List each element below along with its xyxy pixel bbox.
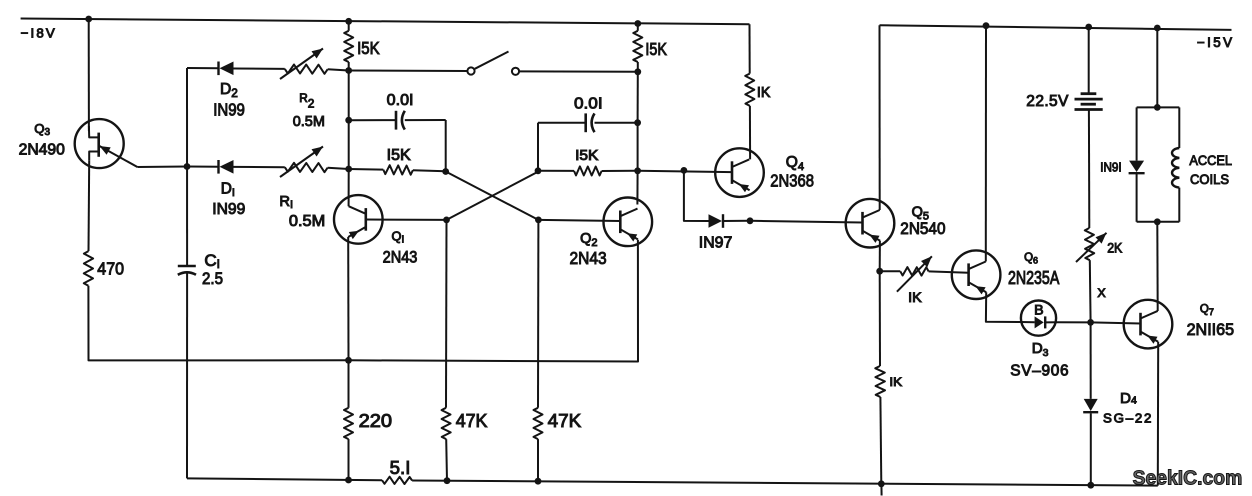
label 0.5M for R1 [289,213,325,230]
label D2 [220,81,238,100]
svg-text:DI: DI [221,181,235,199]
label 0.01 B [574,95,603,112]
label 2K [1107,241,1122,256]
battery 22.5V [1075,94,1103,110]
node junction emitter return / 220 top [345,357,352,364]
svg-text:2K: 2K [1107,241,1122,256]
label 15K C [575,148,599,164]
label Q2 [580,231,597,249]
node junction bottom rail / 47K A [444,477,451,484]
node junction cap line / Q1 column [345,117,352,124]
wire R1 node into Q1 collector [348,169,350,206]
transistor Q2 2N43 [604,198,653,247]
wire -15V top rail [880,25,1232,30]
wire D4 to bottom rail [1090,413,1092,485]
resistor 1K B variable (to Q6 base) [897,256,932,291]
label 47K B [548,410,582,431]
wire cap node to R1 node [348,120,350,169]
wire Q7 emitter to bottom rail [1157,342,1159,486]
svg-text:B: B [1034,302,1044,318]
label 220 [359,410,392,431]
label Q4 [786,154,804,173]
node junction switch line / Q2 column [634,68,641,75]
wire -15V rail to Q6 collector [985,26,987,262]
wire D2 to R2 [234,68,285,70]
label 2N43 for Q2 [570,248,607,268]
wire box to Q7 collector [1156,222,1158,311]
label SV-906 [1010,363,1068,380]
resistor 47K A [442,408,451,439]
resistor 15K D (Q2 collector load) [633,31,642,62]
svg-text:D4: D4 [1120,390,1137,407]
resistor 5.1 (in bottom rail) [382,477,412,484]
svg-text:IN9I: IN9I [1100,159,1122,174]
resistor 2K variable [1076,228,1107,262]
svg-text:SG–22: SG–22 [1103,411,1151,426]
wire D2 line left [187,67,220,69]
svg-text:2N368: 2N368 [770,171,814,191]
label 2N235A [1008,268,1059,288]
label SeekIC.com watermark [1133,467,1243,489]
resistor 220 [344,408,353,439]
svg-text:−I8V: −I8V [21,25,55,40]
svg-text:I5K: I5K [357,38,380,58]
node junction cap B / Q2 column [634,119,641,126]
svg-text:ACCEL: ACCEL [1189,152,1232,168]
svg-text:2N235A: 2N235A [1008,268,1059,288]
wire -15V rail to Q5 collector [879,25,881,210]
wire box left upper [1136,107,1138,160]
label Q1 [392,229,405,246]
label 0.5M for R2 [293,114,325,130]
wire stub below rail at 1K C column [880,484,882,496]
wire 15K D to switch node [637,62,639,72]
label Q7 [1200,304,1214,318]
wire box right upper [1178,107,1180,148]
wire Q6 emitter to D3 [986,292,1021,322]
svg-text:X: X [1097,286,1105,300]
wire coil box bottom [1137,221,1180,223]
wire switch node to cap node [348,71,350,121]
diode D1 1N99 [219,160,234,174]
wire D1 line left [187,166,220,168]
wire Q3 emitter to D1 node [137,166,187,169]
label D1 [221,181,235,199]
svg-text:220: 220 [359,410,392,431]
label 1K C [889,375,902,389]
wire switch line right [519,70,638,72]
capacitor C1 [178,266,196,275]
label 1N99 for D2 [213,99,245,119]
svg-text:QI: QI [392,229,405,246]
svg-text:0.0I: 0.0I [387,92,414,109]
node junction -15V rail / coil box column [1154,25,1161,32]
label 1K B [908,289,922,305]
wire cap B left lead down [537,123,539,171]
svg-text:Q7: Q7 [1200,304,1214,318]
svg-text:SV–906: SV–906 [1010,363,1068,380]
resistor R2 0.5M variable [280,49,328,80]
wire X node to Q7 base [1091,322,1141,323]
resistor 1K A (Q4 collector load) [745,74,754,106]
label R2 [299,91,315,111]
label 47K A [456,410,488,431]
node junction -15V rail / battery column [1085,24,1092,31]
switch S1 lever [475,52,509,69]
label ACCEL [1189,152,1232,168]
transistor Q4 2N368 [715,148,764,197]
node junction top rail / Q3 column [85,16,92,23]
label 2N43 for Q1 [383,248,418,267]
svg-text:47K: 47K [456,410,488,431]
node X junction [1087,319,1094,326]
wire switch node to cap B node [637,72,639,123]
label Q5 [912,205,929,223]
node junction bottom rail / 47K B [535,478,542,485]
node Q1 base junction [443,217,450,224]
svg-text:2NII65: 2NII65 [1187,320,1235,339]
svg-text:0.0I: 0.0I [574,95,603,112]
wire -18V top rail [21,19,750,25]
label 0.01 A [387,92,414,109]
svg-text:IK: IK [908,289,922,305]
diode 1N91 [1129,161,1145,174]
capacitor 0.01 B [538,113,638,132]
svg-text:0.5M: 0.5M [289,213,325,230]
svg-text:2.5: 2.5 [202,269,223,288]
svg-text:R2: R2 [299,91,315,111]
diode D3 SV-906 (circled, B) [1021,301,1056,336]
svg-text:D3: D3 [1032,340,1049,359]
label Q6 [1024,252,1038,266]
wire 220 top lead [348,360,350,408]
svg-text:2N490: 2N490 [19,141,65,158]
node Q5 emitter junction [876,268,883,275]
wire Q5 emitter to 1K B [880,270,901,272]
wire 1N97 drop [684,170,709,221]
wire D3 to X node [1056,321,1091,323]
wire coil box top [1137,106,1180,108]
label X node [1097,286,1105,300]
node junction bottom rail / D4 [1087,482,1094,489]
svg-text:5.I: 5.I [390,457,411,478]
svg-text:22.5V: 22.5V [1026,93,1069,110]
label 5.1 [390,457,411,478]
wire 1K A to Q4 collector [749,106,751,159]
node junction cap B / 15K C / cross-couple [535,167,542,174]
transistor Q5 2N540 [846,199,895,248]
wire Q5 emitter down to 1K node [879,241,881,271]
wire bottom rail right of 5.1 [412,481,1158,486]
wire 2K to X node [1089,260,1092,322]
label 1N97 [699,234,733,251]
svg-text:IK: IK [889,375,902,389]
label 15K B [387,147,412,164]
label C1 [204,251,220,271]
label 15K D [645,39,667,59]
svg-text:2N43: 2N43 [570,248,607,268]
label 2N540 [900,219,945,238]
wire X node to D4 [1090,322,1092,399]
wire 15K A to switch node [348,62,350,71]
wire rail to 15K A [348,21,350,31]
wire C1 to bottom rail [186,273,188,478]
wire 47K B top lead [537,220,539,408]
wire 1N97 to Q4 emitter node [723,220,750,222]
label 1N99 for D1 [212,201,245,218]
wire cross-couple diagonal B [447,172,539,220]
node junction switch line / Q1 column [345,67,352,74]
resistor 15K C (cross-couple) [538,166,638,175]
switch S1 pole [467,67,474,74]
svg-text:COILS: COILS [1190,171,1229,187]
node Q2 base junction [535,217,542,224]
node junction box bottom [1154,218,1161,225]
wire multivib emitter return [349,240,639,362]
label 2N368 [770,171,814,191]
svg-text:2N43: 2N43 [383,248,418,267]
wire 47K A to rail [445,439,448,481]
wire Q3 collector column from rail [88,19,90,131]
node junction Q4 base / 1N97 drop [681,167,688,174]
transistor Q1 2N43 [334,195,383,244]
wire 47K A top lead [445,220,448,408]
resistor 1K C (Q5 emitter to rail) [875,366,885,397]
inductor ACCEL COILS [1172,148,1179,188]
wire cross-couple diagonal A [446,172,539,220]
wire Q3 base2 down to 470 [88,160,91,251]
node junction top rail / Q2 column [634,20,641,27]
wire switch line left [349,70,468,73]
wire Q2 base lead [538,220,620,221]
wire R2 to Q1 column [328,69,349,70]
wire 47K B to rail [537,439,539,481]
label 15K A [357,38,380,58]
switch S1 throw [512,68,519,75]
svg-text:D2: D2 [220,81,238,100]
wire D2 branch vertical [186,68,188,266]
svg-text:IN97: IN97 [699,234,733,251]
label B inside D3 [1034,302,1044,318]
svg-text:RI: RI [279,194,293,211]
svg-text:I5K: I5K [387,147,412,164]
label -15V [1197,35,1232,50]
wire rail to 15K D [637,24,639,31]
wire 220 to bottom rail [348,439,350,480]
label 2.5 [202,269,223,288]
svg-text:I5K: I5K [575,148,599,164]
wire 1K C to bottom rail [879,397,882,484]
diode D2 1N99 [219,62,234,76]
svg-text:Q6: Q6 [1024,252,1038,266]
wire rail to coil box [1156,28,1158,107]
svg-text:470: 470 [97,259,124,279]
label D3 [1032,340,1049,359]
wire 1K C top lead [879,271,881,366]
node junction -15V rail / Q6 column [983,22,990,29]
node junction bottom rail / 220 [345,477,352,484]
wire Q4 emitter node to Q5 base [750,221,862,223]
wire rail to battery [1088,27,1090,93]
resistor R1 0.5M variable [280,147,328,178]
svg-text:0.5M: 0.5M [293,114,325,130]
transistor Q6 2N235A [952,250,1001,299]
node junction box top [1154,104,1161,111]
label 1K A [757,85,771,101]
wire bottom rail left of 5.1 [187,478,382,480]
label Q3 [34,121,50,138]
svg-text:IN99: IN99 [212,201,245,218]
label 1N91 [1100,159,1122,174]
node junction bottom rail / 1K emitter resistor [878,480,885,487]
node Q4 emitter junction [747,217,754,224]
label COILS [1190,171,1229,187]
wire 15K C node into Q2 collector [636,171,638,205]
svg-text:2N540: 2N540 [900,219,945,238]
wire cap A right lead down [445,120,447,172]
wire -18V rail corner down to 1K [749,24,751,73]
wire 1K B to Q6 base [929,271,969,272]
wire Q4 base line [638,171,732,172]
resistor 47K B [534,408,543,439]
svg-text:IK: IK [757,85,771,101]
label 2N490 [19,141,65,158]
node junction top rail / Q1 column [345,18,352,25]
label D4 [1120,390,1137,407]
wire Q1 base lead [366,219,447,221]
wire R1 to Q1 column [328,168,349,169]
node junction 15K C / Q2 column / Q4 base line [634,167,641,174]
diode 1N97 [709,214,724,228]
node junction D1 line / vertical [184,163,191,170]
wire cap B node to 15K C node [637,123,639,171]
label 470 [97,259,124,279]
svg-text:47K: 47K [548,410,582,431]
svg-text:I5K: I5K [645,39,667,59]
node junction cap A / 15K B / cross-couple [442,168,449,175]
diode D4 SG-22 [1083,399,1098,412]
label 2N1165 [1187,320,1235,339]
svg-text:IN99: IN99 [213,99,245,119]
transistor Q3 2N490 (UJT style) [75,119,138,168]
wire Q1 emitter down [347,237,349,360]
svg-text:SeekIC.com: SeekIC.com [1133,467,1243,489]
svg-text:Q3: Q3 [34,121,50,138]
transistor Q7 2N1165 [1124,300,1173,349]
wire D1 to R1 [234,166,285,168]
label R1 [279,194,293,211]
wire 470 to lower-left corner [88,286,348,361]
resistor 15K B (cross-couple) [349,165,446,175]
wire battery to 2K [1088,110,1090,229]
label SG-22 [1103,411,1151,426]
svg-text:Q2: Q2 [580,231,597,249]
label 22.5V [1026,93,1069,110]
label -18V [21,25,55,40]
wire box left lower [1136,174,1138,222]
resistor 15K A (Q1 collector load) [344,31,353,62]
capacitor 0.01 A [349,111,446,130]
wire box right lower [1178,188,1180,222]
svg-text:−I5V: −I5V [1197,35,1232,50]
node junction R1-15K / Q1 column [345,166,352,173]
resistor 470 [84,251,93,286]
